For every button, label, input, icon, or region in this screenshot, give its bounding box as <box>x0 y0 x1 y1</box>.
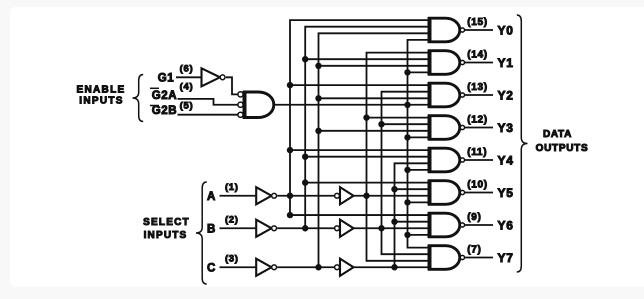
svg-text:INPUTS: INPUTS <box>144 230 188 241</box>
svg-text:OUTPUTS: OUTPUTS <box>536 143 589 154</box>
svg-text:(11): (11) <box>467 147 487 158</box>
svg-text:Y3: Y3 <box>498 121 514 135</box>
svg-text:(9): (9) <box>467 212 481 223</box>
svg-text:(6): (6) <box>180 64 194 75</box>
svg-text:C: C <box>207 262 216 274</box>
svg-text:ENABLE: ENABLE <box>77 85 126 96</box>
svg-text:(1): (1) <box>225 182 239 193</box>
svg-text:Y5: Y5 <box>498 186 514 200</box>
svg-text:Y0: Y0 <box>498 23 514 37</box>
svg-text:Y1: Y1 <box>498 56 514 70</box>
svg-text:(13): (13) <box>467 82 488 93</box>
svg-text:(2): (2) <box>225 214 239 225</box>
svg-text:G2A: G2A <box>152 90 177 102</box>
svg-text:(7): (7) <box>467 245 481 256</box>
svg-text:B: B <box>207 223 216 235</box>
svg-text:A: A <box>207 191 216 203</box>
svg-text:G2B: G2B <box>152 105 177 117</box>
svg-text:(15): (15) <box>467 17 488 28</box>
svg-text:(12): (12) <box>467 115 488 126</box>
svg-text:(10): (10) <box>467 180 488 191</box>
svg-text:(3): (3) <box>225 253 239 264</box>
svg-text:(4): (4) <box>180 82 194 93</box>
svg-text:G1: G1 <box>158 72 175 84</box>
svg-text:Y4: Y4 <box>498 153 514 167</box>
svg-text:DATA: DATA <box>543 129 572 140</box>
svg-text:Y6: Y6 <box>498 218 514 232</box>
svg-text:INPUTS: INPUTS <box>79 96 123 107</box>
svg-text:(14): (14) <box>467 50 488 61</box>
svg-text:Y2: Y2 <box>498 88 514 102</box>
svg-text:Y7: Y7 <box>498 251 514 265</box>
svg-text:SELECT: SELECT <box>143 217 190 228</box>
svg-text:(5): (5) <box>180 100 194 111</box>
